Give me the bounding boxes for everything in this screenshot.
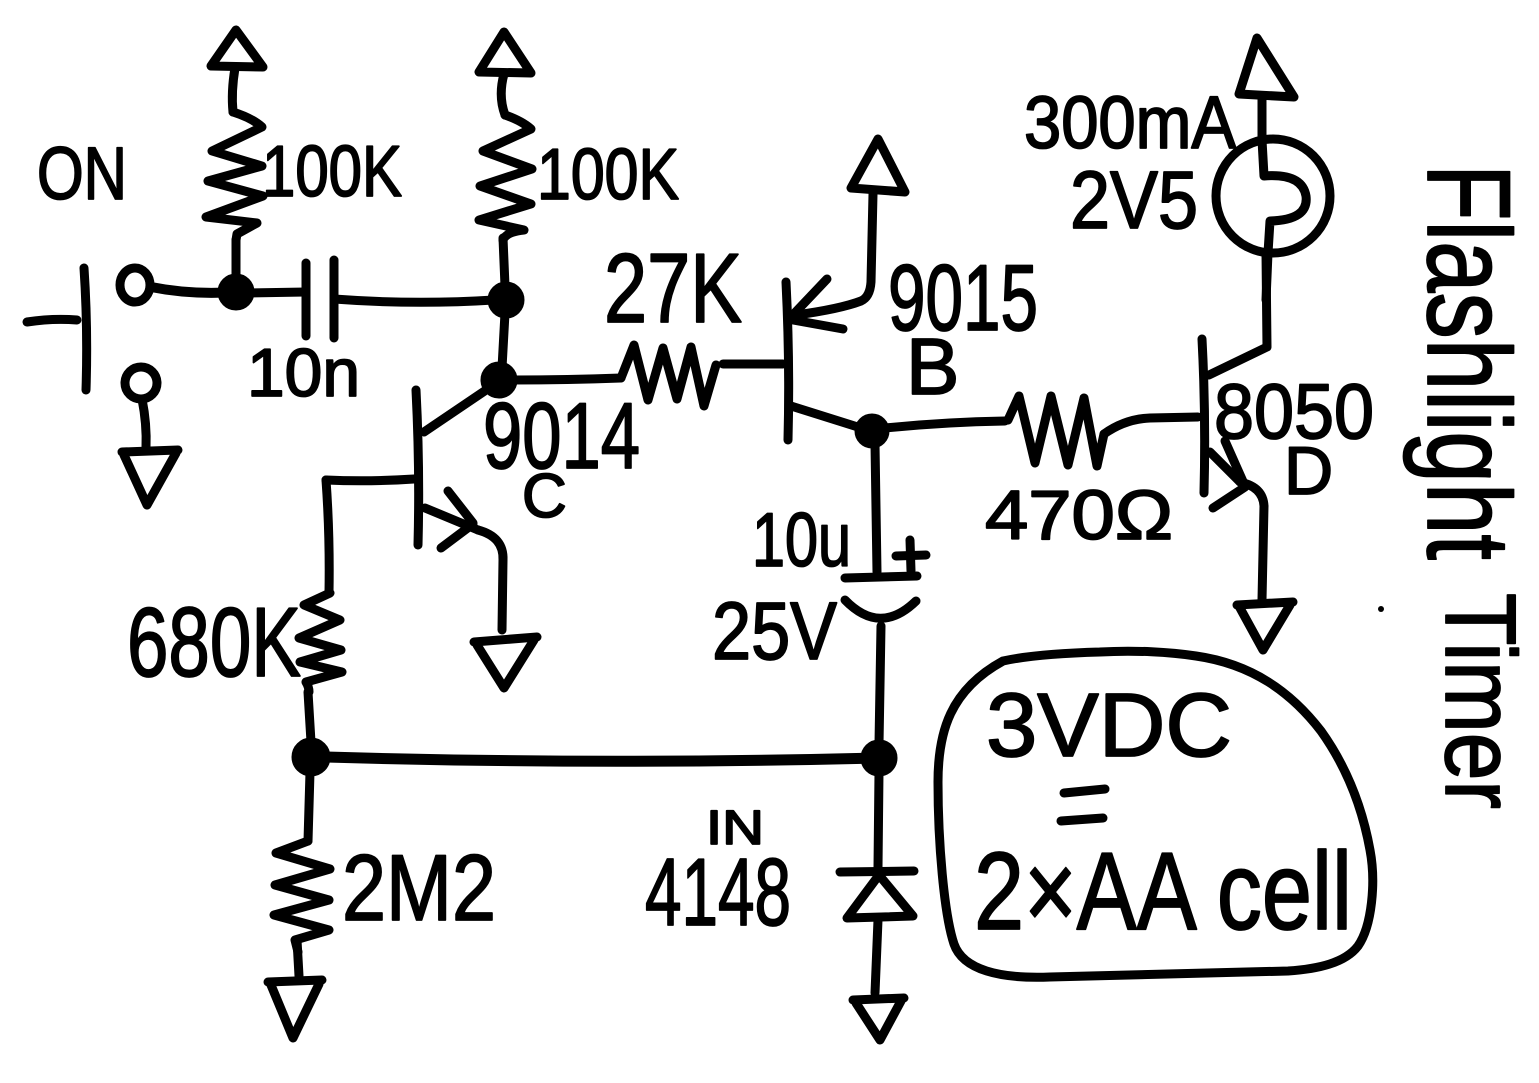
- diode D1 triangle: [847, 875, 913, 918]
- node D junction dot: [296, 742, 326, 772]
- Q2 collector to node F: [791, 406, 861, 428]
- wire node F to R6: [885, 421, 1005, 428]
- ground below Q3: [1237, 602, 1293, 650]
- ground below switch: [122, 450, 178, 505]
- Q3 collector wire: [1209, 253, 1267, 375]
- wire C2 to node E: [879, 626, 881, 744]
- wire R2 to node B: [503, 238, 505, 286]
- diode D1 cathode bar: [840, 871, 914, 872]
- wire R4 to node D: [308, 692, 311, 742]
- wire node F down to C2: [875, 444, 877, 572]
- svg-text:2V5: 2V5: [1070, 155, 1198, 246]
- battery note blob: [938, 651, 1373, 977]
- switch contact circle bottom: [125, 367, 157, 399]
- power arrow above R2: [479, 32, 531, 115]
- transistor Q2 9015 base bar: [786, 282, 789, 440]
- ground below diode: [853, 998, 904, 1040]
- capacitor C1 right plate: [330, 260, 339, 338]
- svg-text:27K: 27K: [604, 233, 742, 343]
- svg-text:2×AA cell: 2×AA cell: [974, 830, 1352, 953]
- wire node B to node C: [502, 313, 505, 368]
- capacitor C1 10n left plate: [302, 263, 311, 336]
- svg-text:4148: 4148: [645, 839, 791, 946]
- wire R6 to Q3 base: [1104, 417, 1198, 434]
- svg-text:D: D: [1284, 433, 1333, 509]
- Q3 emitter with arrow: [1210, 441, 1264, 600]
- svg-text:ON: ON: [37, 132, 127, 215]
- label equals: [1061, 789, 1105, 821]
- lamp filament: [1262, 140, 1306, 253]
- node A junction dot: [222, 278, 250, 306]
- pushbutton switch S1 actuator: [27, 268, 87, 390]
- svg-text:25V: 25V: [712, 586, 837, 677]
- svg-text:100K: 100K: [537, 135, 679, 215]
- resistor R2 100K vertical: [479, 115, 532, 240]
- ground below Q1 emitter: [474, 637, 537, 688]
- svg-text:300mA: 300mA: [1024, 81, 1237, 164]
- svg-text:Timer: Timer: [1424, 593, 1536, 809]
- power arrow above lamp: [1239, 38, 1294, 140]
- node E junction dot: [865, 744, 893, 772]
- capacitor C2 10u top plate: [845, 576, 917, 578]
- svg-text:2M2: 2M2: [342, 835, 496, 940]
- plus sign: [896, 540, 926, 571]
- wire switch to node A: [151, 287, 235, 293]
- power arrow above R1: [211, 30, 263, 112]
- switch contact circle top: [120, 268, 150, 302]
- ink speck: [1378, 606, 1384, 612]
- ground below R5: [268, 980, 322, 1038]
- wire Q1 base to R4: [326, 480, 329, 593]
- wire bottom contact to ground: [142, 399, 146, 448]
- svg-text:470Ω: 470Ω: [985, 476, 1173, 554]
- transistor Q1 9014 base bar: [416, 390, 419, 545]
- svg-text:C: C: [522, 462, 567, 531]
- svg-text:Flashlight: Flashlight: [1402, 164, 1534, 560]
- svg-text:B: B: [906, 322, 959, 411]
- Q1 collector wire to node C: [424, 386, 492, 432]
- svg-text:10n: 10n: [247, 335, 360, 411]
- Q1 base wire: [326, 479, 414, 481]
- Q2 emitter arrow and wire to power arrow: [790, 194, 873, 329]
- bottom wire node D to node E: [326, 757, 879, 761]
- wire diode to ground: [875, 920, 878, 993]
- transistor Q3 8050 base bar: [1202, 339, 1205, 493]
- resistor R1 100K vertical: [206, 112, 263, 240]
- wire node A to C1: [250, 292, 306, 293]
- wire R5 to ground: [297, 940, 299, 976]
- svg-text:10u: 10u: [752, 498, 851, 583]
- wire R3 to Q2 base: [723, 360, 783, 369]
- wire node E to diode: [878, 772, 879, 867]
- capacitor C2 bottom curved plate: [845, 600, 916, 618]
- node B junction dot: [492, 286, 520, 314]
- resistor R4 680K vertical: [299, 593, 342, 692]
- svg-text:3VDC: 3VDC: [986, 676, 1232, 776]
- resistor R5 2M2 vertical: [274, 841, 330, 952]
- power arrow above Q2: [851, 139, 905, 192]
- wire node C to R3: [513, 378, 621, 380]
- svg-text:680K: 680K: [127, 587, 301, 697]
- lamp LA1 circle: [1216, 139, 1330, 253]
- wire node D to R5: [308, 772, 310, 841]
- svg-text:100K: 100K: [262, 132, 402, 212]
- node C junction dot: [485, 366, 513, 394]
- wire R1 to node A: [232, 240, 241, 282]
- node F junction dot: [859, 418, 885, 444]
- Q1 emitter with arrow: [425, 491, 503, 630]
- wire C1 to node B: [334, 299, 494, 302]
- resistor R3 27K horizontal: [621, 345, 716, 406]
- resistor R6 470 ohm horizontal: [1008, 396, 1104, 466]
- wire lamp to Q3 collector: [1266, 253, 1268, 300]
